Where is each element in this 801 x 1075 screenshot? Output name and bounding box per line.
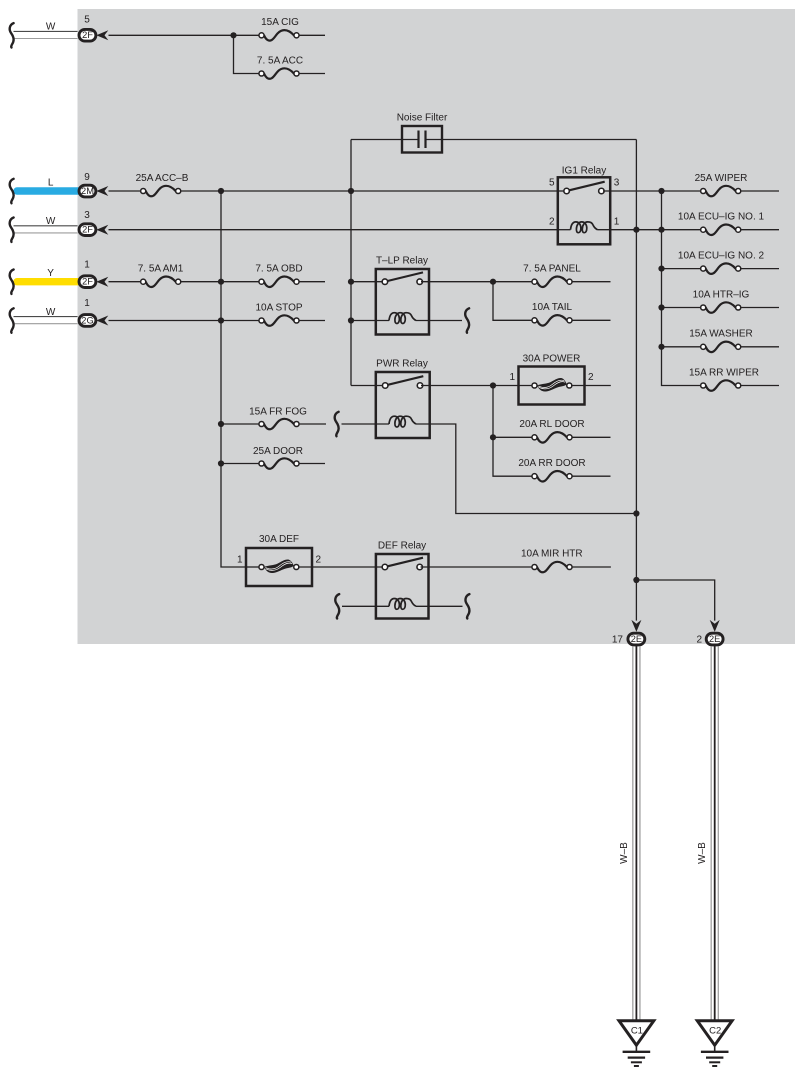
svg-text:DEF Relay: DEF Relay [378, 540, 426, 551]
svg-text:1: 1 [237, 554, 243, 565]
fuse 25A ACC-B [136, 173, 189, 196]
svg-text:30A DEF: 30A DEF [259, 534, 299, 545]
node at (351,281.7) [348, 279, 354, 285]
wire vertical fuse bus x=661.5 [662, 191, 704, 386]
wire from connector to IG1 relay pin 2 [109, 229, 558, 231]
fuse 25A WIPER [695, 173, 779, 196]
wire stub to IG1 switch [558, 190, 564, 192]
svg-text:W–B: W–B [619, 842, 630, 864]
svg-text:2: 2 [588, 372, 594, 383]
svg-text:Noise Filter: Noise Filter [397, 113, 448, 124]
wire to DEF coil [342, 605, 389, 607]
relay PWR coil [389, 416, 416, 427]
node at x=221 [218, 317, 224, 323]
wire break squiggle DEF coil right [465, 594, 469, 618]
node at (351,320.5) [348, 317, 354, 323]
svg-text:7. 5A AM1: 7. 5A AM1 [138, 264, 184, 275]
svg-text:Y: Y [47, 268, 54, 279]
wire break squiggle [10, 179, 14, 203]
wire break squiggle [10, 308, 14, 332]
arrow down into 2E pin 17 [631, 620, 641, 632]
arrow into connector [96, 277, 108, 287]
wire vertical bus x=636.4 from noise filter to 2E [635, 140, 637, 621]
svg-text:9: 9 [84, 172, 90, 183]
wire x=351 to T-LP coil [351, 320, 389, 322]
relay PWR box [376, 372, 430, 438]
wire stub to IG1 coil [558, 229, 571, 231]
wire x=351 into PWR switch [351, 385, 385, 387]
svg-text:2E: 2E [709, 634, 720, 644]
fuse 7.5A AM1 [138, 264, 184, 287]
svg-text:5: 5 [84, 15, 90, 26]
svg-text:1: 1 [614, 216, 620, 227]
fuse 15A WASHER [658, 329, 779, 352]
fuse 25A DOOR [218, 446, 325, 469]
arrow into connector [96, 186, 108, 196]
relay PWR switch contacts [382, 376, 423, 388]
wire vertical POWER to RL/RR DOOR [493, 386, 535, 477]
svg-text:10A MIR HTR: 10A MIR HTR [521, 548, 583, 559]
svg-text:C2: C2 [709, 1026, 721, 1037]
svg-text:15A FR FOG: 15A FR FOG [249, 406, 307, 417]
wire noise filter row right [426, 139, 637, 141]
wire break squiggle [10, 23, 14, 47]
svg-text:25A DOOR: 25A DOOR [253, 446, 303, 457]
wire W-B striped (left drop) [633, 646, 640, 1021]
node at (493,385.5) [490, 382, 496, 388]
wire break to PWR coil [342, 423, 390, 425]
svg-text:20A RL DOOR: 20A RL DOOR [519, 419, 584, 430]
wire AM1 to OBD [181, 281, 262, 283]
svg-text:3: 3 [614, 178, 620, 189]
node at (636.4,513.5) [633, 510, 639, 516]
node at x=351 [348, 188, 354, 194]
fusible link 30A POWER [509, 354, 610, 405]
wire x=351 to T-LP switch [351, 281, 385, 283]
wire vertical bus from ACC-B row to 30A DEF [221, 191, 246, 567]
fuse 10A ECU-IG NO. 1 [678, 212, 779, 235]
svg-text:W–B: W–B [697, 842, 708, 864]
wire T-LP coil to break [416, 320, 462, 322]
svg-text:10A ECU–IG NO. 1: 10A ECU–IG NO. 1 [678, 212, 765, 223]
svg-text:25A WIPER: 25A WIPER [695, 173, 748, 184]
wire vertical PANEL to TAIL [493, 282, 535, 321]
svg-text:PWR Relay: PWR Relay [376, 358, 428, 369]
svg-text:7. 5A OBD: 7. 5A OBD [255, 264, 302, 275]
svg-text:2E: 2E [631, 634, 642, 644]
ground C1 [619, 1021, 654, 1066]
ground C2 [697, 1021, 732, 1066]
svg-text:2F: 2F [82, 225, 93, 235]
wire break squiggle DEF coil left [335, 594, 339, 618]
svg-text:10A HTR–IG: 10A HTR–IG [693, 289, 750, 300]
svg-text:15A WASHER: 15A WASHER [689, 329, 753, 340]
svg-text:2F: 2F [82, 277, 93, 287]
wire ACC-B row to IG1 relay pin 5 [181, 190, 558, 192]
svg-text:W: W [46, 216, 56, 227]
wire break squiggle [465, 308, 469, 332]
wire 30A DEF to DEF relay switch [298, 566, 385, 568]
svg-text:2: 2 [316, 554, 322, 565]
wire DEF switch to MIR HTR fuse [421, 566, 535, 568]
wire from connector to fuse 25A ACC-B [109, 190, 144, 192]
connector 2F [79, 29, 96, 41]
svg-text:17: 17 [612, 635, 624, 646]
fuse 10A STOP [255, 302, 325, 325]
relay T-LP switch contacts [382, 272, 423, 284]
wire IG1 pin3 to right fuse bus [603, 190, 703, 192]
noise filter N1 [397, 113, 448, 153]
relay T-LP box [376, 269, 429, 335]
svg-text:10A TAIL: 10A TAIL [532, 302, 573, 313]
connector 2E (right) [706, 633, 723, 645]
wire T-LP switch to PANEL fuse [421, 281, 535, 283]
svg-text:10A STOP: 10A STOP [255, 302, 302, 313]
connector 2G [79, 315, 96, 327]
relay DEF box [376, 554, 429, 619]
svg-text:30A POWER: 30A POWER [523, 354, 581, 365]
wire break squiggle FR FOG [335, 412, 339, 436]
node at (636.4,580) [633, 577, 639, 583]
fusible link 30A DEF [237, 534, 322, 586]
relay DEF coil [389, 599, 416, 610]
svg-text:W: W [46, 307, 56, 318]
svg-text:T–LP Relay: T–LP Relay [376, 255, 428, 266]
arrow into connector [96, 30, 108, 40]
svg-text:10A ECU–IG NO. 2: 10A ECU–IG NO. 2 [678, 251, 765, 262]
node at x=661.5 WIPER row [658, 188, 664, 194]
relay DEF switch contacts [382, 558, 423, 570]
svg-text:2G: 2G [81, 315, 93, 325]
svg-text:15A CIG: 15A CIG [261, 17, 299, 28]
svg-text:C1: C1 [631, 1026, 643, 1037]
connector 2M [79, 185, 96, 197]
svg-text:IG1 Relay: IG1 Relay [562, 166, 606, 177]
wire lead L (blue) into connector 2M pin 9 [17, 187, 78, 194]
svg-text:7. 5A PANEL: 7. 5A PANEL [523, 264, 581, 275]
svg-text:2: 2 [549, 216, 555, 227]
svg-text:20A RR DOOR: 20A RR DOOR [518, 458, 585, 469]
fuse 7.5A PANEL [523, 264, 610, 287]
relay T-LP coil [389, 313, 416, 324]
wire IG1 pin1 row to ECU-IG fuse [598, 229, 704, 231]
svg-text:W: W [46, 22, 56, 33]
wire break squiggle [10, 270, 14, 294]
node at x=221 [218, 188, 224, 194]
relay IG1 coil [571, 222, 598, 233]
fuse 10A ECU-IG NO. 2 [658, 251, 779, 274]
fuse 15A CIG [259, 17, 325, 40]
arrow down into 2E pin 2 [710, 620, 720, 632]
wire from connector to fuse 7.5A AM1 [109, 281, 144, 283]
wire lead Y (yellow) into connector 2F pin 1 [17, 278, 78, 285]
connector 2F [79, 224, 96, 236]
fuse 15A FR FOG [218, 406, 326, 429]
svg-text:5: 5 [549, 178, 555, 189]
relay IG1 box [558, 177, 610, 244]
arrow into connector [96, 225, 108, 235]
svg-text:15A RR WIPER: 15A RR WIPER [689, 367, 759, 378]
wire branch to second ground drop [636, 580, 714, 621]
fuse 20A RR DOOR [518, 458, 610, 481]
wire DEF coil right to break [416, 605, 463, 607]
wire lead W into connector 2F pin 3 [14, 226, 78, 233]
fuse 20A RL DOOR [490, 419, 611, 442]
fuse 15A RR WIPER [689, 367, 779, 390]
svg-text:7. 5A ACC: 7. 5A ACC [257, 56, 303, 67]
node at x=661.5 [658, 227, 664, 233]
svg-text:25A ACC–B: 25A ACC–B [136, 173, 189, 184]
fuse 10A TAIL [532, 302, 611, 325]
fuse 10A MIR HTR [521, 548, 611, 572]
svg-text:2M: 2M [81, 186, 94, 196]
fuse 7.5A OBD [255, 264, 325, 287]
relay IG1 switch contacts [564, 182, 605, 194]
node junction at CIG/ACC branch [230, 32, 236, 38]
wire PWR switch to 30A POWER [421, 385, 535, 387]
svg-text:3: 3 [84, 210, 90, 221]
wire noise filter row left [351, 139, 419, 141]
node at x=221 [218, 279, 224, 285]
svg-text:1: 1 [84, 298, 90, 309]
svg-text:2F: 2F [82, 30, 93, 40]
wire PWR coil right, down to y=513.5 and right to bus [416, 424, 636, 514]
node at x=636.4 [633, 227, 639, 233]
wire from connector to fuse 10A STOP [109, 320, 262, 322]
connector 2E (left) [628, 633, 645, 645]
svg-text:1: 1 [509, 372, 515, 383]
fuse 7.5A ACC [257, 56, 325, 79]
svg-text:1: 1 [84, 260, 90, 271]
connector 2F [79, 276, 96, 288]
wire from connector to junction and CIG fuse [109, 34, 262, 36]
fuse 10A HTR-IG [658, 289, 779, 312]
wire lead W (white) into connector 2F pin 5 [14, 31, 78, 38]
arrow into connector [96, 316, 108, 326]
wire vertical from filter to ACC-B row [350, 140, 352, 386]
wire W-B striped (right drop) [711, 646, 718, 1021]
wire lead W into connector 2G pin 1 [14, 317, 78, 324]
svg-text:L: L [48, 177, 54, 188]
wire branch down to ACC row [234, 35, 262, 73]
wire break squiggle [10, 218, 14, 242]
node at (493,281.7) [490, 279, 496, 285]
svg-text:2: 2 [696, 635, 702, 646]
